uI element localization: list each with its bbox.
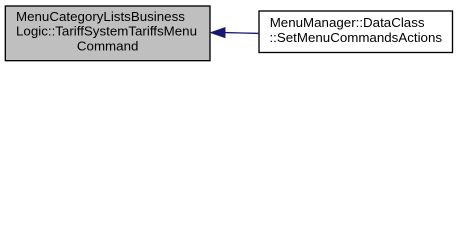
- node Node2: MenuManager::DataClass::SetMenuCommandsActions (caller): [259, 11, 453, 53]
- svg-text:Logic::TariffSystemTariffsMenu: Logic::TariffSystemTariffsMenu: [16, 24, 197, 39]
- node Node1: MenuCategoryListsBusinessLogic::TariffSystemTariffsMenuCommand (current node, grey): [5, 6, 210, 61]
- wire: [225, 32, 259, 35]
- svg-text:Command: Command: [77, 38, 138, 53]
- svg-text:MenuManager::DataClass: MenuManager::DataClass: [270, 15, 425, 30]
- edge Node1 <- Node2 (caller arrow, midnightblue): [211, 28, 259, 37]
- arrowhead: [211, 28, 225, 37]
- svg-text:::SetMenuCommandsActions: ::SetMenuCommandsActions: [269, 30, 442, 45]
- svg-text:MenuCategoryListsBusiness: MenuCategoryListsBusiness: [16, 9, 185, 24]
